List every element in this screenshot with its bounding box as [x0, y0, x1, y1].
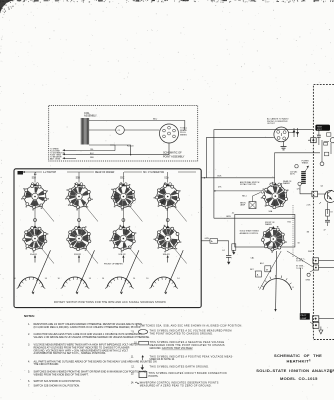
switch wafer S1A — [23, 225, 49, 252]
note 9: dc voltage oval symbol — [131, 330, 232, 336]
svg-text:POINT ASSEMBLY: POINT ASSEMBLY — [163, 156, 185, 159]
svg-text:2.: 2. — [28, 333, 30, 336]
transistor Q5 — [318, 190, 334, 203]
svg-text:S5A: S5A — [32, 177, 37, 180]
svg-text:SWITCHES S5A, S5B, AND S5C ARE: SWITCHES S5A, S5B, AND S5C ARE SHOWN IN … — [140, 324, 243, 327]
AC outlet socket J1 — [274, 127, 289, 142]
wire S3 to chassis jack — [287, 251, 314, 267]
svg-text:6.: 6. — [28, 380, 30, 383]
pointer arrow column 4 — [167, 255, 169, 263]
junction — [130, 154, 131, 155]
shaft linkage dotted line — [292, 205, 294, 258]
svg-text:1M: 1M — [307, 232, 310, 234]
svg-text:ROTAL POSITION: ROTAL POSITION — [240, 183, 256, 186]
line cord terminal — [295, 165, 302, 186]
svg-text:M: M — [266, 269, 268, 271]
wire drops from top components — [320, 140, 331, 166]
svg-text:14.: 14. — [131, 382, 135, 385]
chassis dashed boundary — [313, 85, 334, 340]
resistor label box right — [324, 133, 334, 145]
switch wafer S2B — [109, 225, 136, 253]
power transformer T1 — [301, 166, 309, 184]
meter needle — [260, 251, 282, 312]
link wire to wafer S2B — [122, 207, 125, 226]
svg-text:ADVANCE CONTROL: ADVANCE CONTROL — [240, 232, 259, 235]
svg-text:FRONT OF WAFER: FRONT OF WAFER — [104, 263, 123, 266]
terminal GRN — [306, 270, 315, 282]
plug terminal P2 — [310, 322, 319, 328]
wire to neon lamp — [214, 190, 264, 193]
svg-text:POINTS.: POINTS. — [149, 375, 159, 378]
capacitor C12 — [325, 216, 330, 226]
svg-text:A DISTRIBUTOR SWITCH S1 SET 8: A DISTRIBUTOR SWITCH S1 SET 8 CYL., NORM… — [34, 352, 107, 355]
note 5 — [28, 371, 147, 377]
svg-text:GRN: GRN — [226, 216, 231, 218]
wire heater run — [275, 153, 320, 183]
svg-text:SCHEMATIC OF: SCHEMATIC OF — [163, 152, 182, 155]
svg-text:ASSEMBLY: ASSEMBLY — [84, 114, 97, 117]
gang line from S2A — [173, 205, 187, 222]
svg-text:THE CIRCUIT BOARD.: THE CIRCUIT BOARD. — [34, 363, 60, 366]
wire to breaker points — [76, 150, 115, 152]
capacitor C4 with ground — [222, 241, 235, 265]
gang line from S5B — [84, 205, 98, 222]
chassis jack J3 — [313, 265, 334, 270]
wire riser to chassis line — [214, 130, 313, 219]
wire lower tap A — [201, 239, 229, 244]
svg-text:VIEWED FROM THE KNOB END OF TH: VIEWED FROM THE KNOB END OF THE SHAFT. — [34, 374, 89, 377]
note 4 — [28, 360, 157, 366]
svg-text:S2A: S2A — [164, 177, 169, 180]
wire BLK from switch box — [201, 176, 274, 179]
svg-text:3.: 3. — [28, 344, 30, 347]
svg-text:REAR OF WAFER: REAR OF WAFER — [95, 171, 115, 174]
svg-text:SWITCH S2B SHOWN IN CAL POSITI: SWITCH S2B SHOWN IN CAL POSITION. — [34, 385, 81, 388]
svg-text:TO PT 4: TO PT 4 — [296, 261, 303, 263]
link wire to wafer S3A — [166, 207, 169, 226]
gang line from S1A — [40, 247, 54, 264]
switch wafer S5C — [111, 183, 135, 211]
lead-out arrow 2 — [50, 152, 94, 156]
svg-text:GROUND. CAUTION: HIGH VOLTAGE!: GROUND. CAUTION: HIGH VOLTAGE! — [150, 347, 193, 350]
lead-out arrow 3 — [50, 155, 95, 160]
pointer arrow column 2 — [78, 255, 80, 263]
switch wafer S2A — [154, 183, 181, 211]
switch wafer S5A — [21, 183, 49, 210]
emitter arrow lead — [319, 202, 327, 214]
wire transformer to C box — [300, 186, 312, 194]
svg-text:1.: 1. — [28, 323, 30, 326]
wire riser to AC outlet line — [207, 137, 274, 177]
svg-text:S3A FR: S3A FR — [163, 253, 170, 256]
svg-text:GRN: GRN — [205, 238, 210, 240]
corner label block — [18, 171, 24, 175]
svg-text:S2B FR: S2B FR — [118, 254, 126, 256]
svg-text:TRANS.: TRANS. — [302, 162, 309, 165]
stem + terminals above wafer S5C — [120, 172, 127, 185]
gang line from S5C — [128, 205, 142, 222]
svg-text:WIRES: WIRES — [180, 135, 187, 137]
svg-text:BLU: BLU — [153, 119, 158, 121]
gang line from S2B — [128, 247, 142, 264]
switch wafer S5B — [65, 183, 93, 210]
svg-text:(K=1,000 AND MEG=1,000,000). C: (K=1,000 AND MEG=1,000,000). CAPACITORS … — [34, 326, 142, 329]
svg-text:60 Hz: 60 Hz — [290, 174, 295, 176]
svg-text:LAMP: LAMP — [240, 204, 246, 207]
resistor R31 — [326, 210, 334, 217]
header dimension line — [22, 171, 196, 173]
wire bus to wafer box — [214, 217, 295, 219]
note 1 — [28, 323, 142, 329]
chassis jack J2 — [313, 258, 334, 264]
note 12: chassis ground symbol — [131, 365, 209, 370]
svg-text:WHT: WHT — [308, 251, 313, 253]
lead-out arrow 1 — [50, 147, 94, 152]
svg-text:S1B FR: S1B FR — [74, 254, 82, 256]
svg-text:47: 47 — [324, 230, 326, 232]
earth ground symbol — [319, 327, 323, 335]
pilot lamp label — [300, 313, 310, 320]
svg-text:SCHEMATIC OF THE: SCHEMATIC OF THE — [274, 353, 322, 358]
label S5 cylinder — [142, 170, 178, 173]
connection box A2 — [250, 269, 261, 277]
svg-text:VOLT: VOLT — [317, 129, 323, 131]
svg-text:LIGHT: LIGHT — [301, 318, 308, 320]
distributor cap — [160, 124, 179, 143]
meter M1 dial — [258, 275, 295, 290]
switch wafer S1B — [67, 225, 91, 250]
note 7 — [28, 385, 80, 388]
svg-text:NO. CYLINDER SW: NO. CYLINDER SW — [143, 172, 165, 174]
svg-text:1-2 SWITCH: 1-2 SWITCH — [43, 172, 57, 174]
stem + terminals above wafer S2A — [164, 172, 171, 185]
svg-text:OUTLET: OUTLET — [267, 123, 276, 125]
ignition coil — [81, 118, 89, 145]
rotary switch S3 front wafer — [261, 226, 286, 253]
capacitor C9 — [317, 131, 321, 146]
svg-text:ROTARY SWITCH POSITIONS FOR TH: ROTARY SWITCH POSITIONS FOR THE RPM AND … — [54, 301, 166, 304]
plug terminal P1 — [312, 316, 334, 322]
svg-text:.02: .02 — [232, 213, 235, 215]
svg-text:7.: 7. — [28, 385, 30, 388]
meter dial 2 — [58, 250, 95, 294]
link wire to wafer S1B — [78, 207, 81, 226]
wire distributor to ground run — [76, 143, 169, 155]
wafer box S3 — [235, 214, 295, 247]
gang line from S5A — [40, 205, 54, 222]
circuit board terminal C — [312, 191, 318, 197]
svg-text:RED: RED — [90, 157, 95, 159]
svg-text:8.: 8. — [136, 324, 138, 327]
switch wafer S3A — [154, 225, 182, 252]
main enclosure: rotary switch detail box — [14, 169, 201, 308]
pointer arrow column 3 — [122, 255, 124, 263]
header arrow left — [22, 171, 25, 173]
svg-text:MODEL CO–1015: MODEL CO–1015 — [280, 376, 318, 381]
svg-text:THIS SYMBOL INDICATES CIRCUIT: THIS SYMBOL INDICATES CIRCUIT BOARD CONN… — [149, 372, 227, 375]
svg-text:THIS SYMBOL INDICATES EARTH GR: THIS SYMBOL INDICATES EARTH GROUND. — [150, 366, 210, 369]
stray mark — [330, 371, 332, 373]
svg-text:S5B: S5B — [76, 178, 81, 180]
svg-text:WAFER: WAFER — [265, 223, 272, 226]
stem + terminals above wafer S5A — [31, 172, 38, 185]
note 2 — [28, 333, 150, 339]
svg-text:10.: 10. — [134, 341, 138, 344]
lead-in mark above box — [34, 172, 37, 174]
svg-text:S1A FR: S1A FR — [30, 253, 37, 256]
svg-text:BLK: BLK — [218, 176, 223, 178]
svg-text:TO PT 5: TO PT 5 — [296, 268, 303, 270]
svg-text:* 9.: * 9. — [131, 331, 135, 334]
note 3 — [28, 344, 138, 356]
svg-text:HEATHKIT®: HEATHKIT® — [287, 359, 311, 364]
note 6 — [28, 380, 81, 383]
black panel label — [315, 125, 330, 131]
svg-text:SOLID–STATE IGNITION ANALYZER: SOLID–STATE IGNITION ANALYZER — [256, 368, 334, 373]
gang line from S1B — [84, 247, 98, 264]
svg-text:S5C: S5C — [120, 178, 125, 180]
link wire to wafer S1A — [34, 207, 37, 226]
svg-text:5.: 5. — [28, 371, 30, 374]
svg-text:13.: 13. — [131, 372, 135, 375]
terminal box with dot — [308, 138, 316, 143]
svg-text:R51: R51 — [288, 222, 291, 224]
svg-text:R-CLD: R-CLD — [127, 146, 134, 148]
note 10: peak voltage box symbol — [134, 341, 225, 350]
wire coil top to distributor — [89, 121, 185, 131]
svg-text:YEL: YEL — [90, 149, 94, 151]
condenser C1 — [89, 129, 116, 131]
svg-text:THE POINT INDICATED TO CHASSIS: THE POINT INDICATED TO CHASSIS GROUND. — [150, 332, 214, 335]
stem + terminals above wafer S5B — [75, 172, 82, 185]
svg-text:VALUES 1 OR ABOVE ARE IN UF UN: VALUES 1 OR ABOVE ARE IN UF UNLESS OTHER… — [34, 336, 151, 339]
meter dial 1 — [14, 250, 51, 294]
pilot lamp wire — [299, 268, 301, 313]
meter dial 3 — [102, 250, 139, 294]
meter dial 4 — [146, 250, 183, 294]
svg-text:CAL: CAL — [251, 257, 255, 260]
chassis ground below socket — [281, 142, 287, 150]
dashed enclosure: point assembly — [49, 106, 198, 162]
diode pair D1 D2 — [289, 128, 299, 137]
S4 top terminals — [270, 183, 281, 186]
note 11: terminal arrow symbol — [131, 355, 234, 361]
svg-text:ADJ: ADJ — [260, 262, 264, 265]
svg-text:4.: 4. — [28, 360, 30, 363]
label 1-2 switch — [42, 170, 67, 173]
svg-text:Q5: Q5 — [321, 186, 324, 188]
pointer arrow column 1 — [34, 255, 36, 263]
svg-text:URED AS IN NOTE 10.: URED AS IN NOTE 10. — [150, 358, 176, 361]
svg-text:WAFER: WAFER — [283, 182, 290, 185]
note 14: waveform symbol — [131, 382, 219, 388]
svg-text:SWITCH S2A SHOWN IN LOW POSITI: SWITCH S2A SHOWN IN LOW POSITION. — [34, 380, 81, 383]
note 13: circuit board square symbol — [131, 372, 227, 378]
svg-text:MEASURED AT A ZERO PEAK TO ZER: MEASURED AT A ZERO PEAK TO ZERO OF GROUN… — [140, 384, 212, 387]
svg-text:BATT. TERM.: BATT. TERM. — [50, 157, 61, 160]
svg-text:GRN: GRN — [306, 280, 311, 282]
wire coil bottom — [89, 145, 131, 155]
svg-text:12.: 12. — [131, 366, 135, 369]
label rear of wafer — [94, 170, 124, 173]
svg-text:11.: 11. — [131, 355, 135, 358]
neon lamp NE-1 — [240, 192, 261, 208]
gang line from S3A — [173, 247, 187, 264]
resistor with ground inside box — [232, 244, 236, 255]
adjust box — [260, 262, 271, 272]
svg-text:NOTES:: NOTES: — [24, 314, 35, 318]
rotary switch S4 rear wafer — [261, 182, 289, 209]
